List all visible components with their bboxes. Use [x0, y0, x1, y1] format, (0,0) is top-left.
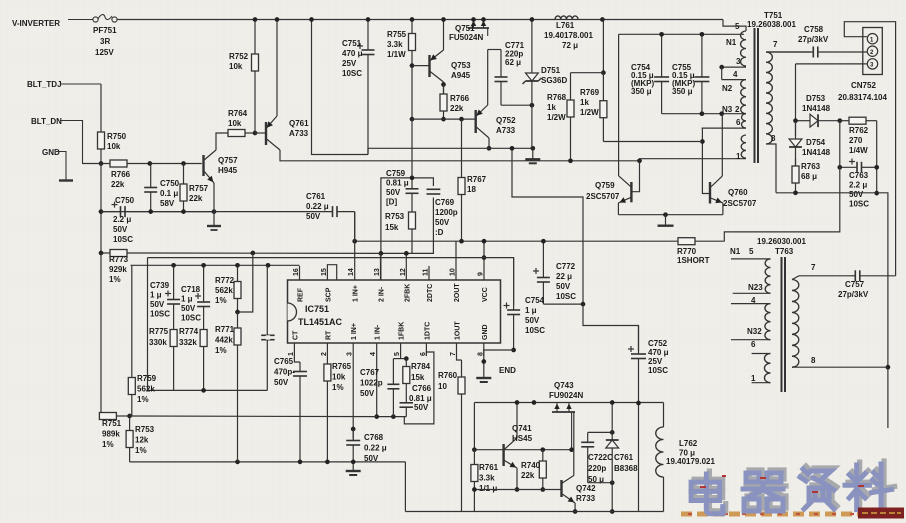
resistor R775 [170, 330, 177, 391]
label Q752 [496, 116, 516, 135]
svg-text:10SC: 10SC [181, 314, 201, 323]
wire rail y192.8 [776, 192, 877, 194]
svg-text:50V: 50V [849, 190, 864, 199]
label Q759 [595, 181, 615, 190]
wire R750 to R773 vertical [100, 164, 102, 254]
svg-text:R763: R763 [801, 162, 821, 171]
junction [530, 17, 535, 22]
svg-text:R752: R752 [229, 52, 249, 61]
wire Q759 emitter drop [617, 203, 619, 215]
wire pin13 riser [380, 253, 382, 266]
svg-text:1: 1 [736, 152, 741, 161]
svg-text:GND: GND [482, 324, 489, 340]
resistor R753 (12k) [126, 416, 133, 462]
label C761 [306, 192, 329, 221]
junction [181, 161, 186, 166]
svg-text:N3: N3 [722, 105, 733, 114]
label Q753 [451, 61, 471, 80]
IC751 bottom pin 1 (CT) [288, 330, 300, 356]
resistor R753 (15k) [409, 208, 416, 253]
transformer T751 core [755, 28, 759, 163]
junction [266, 263, 271, 268]
capacitor C772 (22u) [533, 241, 550, 304]
svg-text:R784: R784 [411, 362, 431, 371]
net BLT_DN label [31, 117, 62, 126]
label T751 [764, 11, 783, 20]
svg-text:1%: 1% [102, 440, 114, 449]
svg-text:1022p: 1022p [360, 379, 383, 388]
IC751 top pin 10 (2OUT) [450, 266, 462, 302]
svg-text:N32: N32 [747, 327, 762, 336]
junction [530, 103, 535, 108]
svg-text:TL1451AC: TL1451AC [298, 317, 343, 327]
wire Q753 emitter to rail [443, 20, 445, 51]
svg-text:C768: C768 [364, 433, 384, 442]
wire VCC jog to C754b [484, 258, 514, 305]
wire T751 tap1 to Q759 base node [640, 159, 747, 161]
transistor Q751 (FU5024N MOSFET) [468, 20, 489, 37]
svg-text:11: 11 [423, 268, 430, 276]
label R753 15k [385, 212, 405, 232]
svg-text:1SHORT: 1SHORT [677, 256, 710, 265]
IC751 top pin 13 (2 IN-) [374, 266, 386, 302]
svg-text:R765: R765 [332, 362, 352, 371]
svg-text:Q741: Q741 [512, 424, 532, 433]
svg-text:12: 12 [400, 268, 407, 276]
svg-text:GND: GND [42, 148, 60, 157]
wire Q741 base rail [474, 449, 571, 451]
watermark underline (dashed) [681, 512, 903, 517]
label R765 [332, 362, 352, 392]
junction [235, 460, 240, 465]
wire pin9 VCC riser [483, 241, 485, 266]
junction [569, 447, 574, 452]
svg-text:22k: 22k [521, 471, 535, 480]
wire Q743 drain rail [474, 402, 663, 404]
capacitor C763 (2.2u) [840, 159, 877, 173]
wire CN752 pin3 to D753 node [796, 63, 867, 65]
svg-text:1DTC: 1DTC [424, 322, 431, 340]
junction [601, 70, 606, 75]
svg-text:R771: R771 [215, 325, 235, 334]
svg-text:C761: C761 [306, 192, 326, 201]
svg-text:0.22 μ: 0.22 μ [364, 444, 387, 453]
svg-text::D: :D [435, 228, 444, 237]
junction [837, 118, 842, 123]
label C767 [360, 368, 383, 398]
label L761 [556, 21, 575, 30]
wire R773 line to pin13 node [148, 252, 381, 254]
svg-text:R750: R750 [107, 132, 127, 141]
transistor Q757 [204, 150, 217, 183]
svg-text:3.3k: 3.3k [387, 40, 403, 49]
svg-text:Q752: Q752 [496, 116, 516, 125]
transistor Q752 [476, 105, 489, 138]
svg-text:1: 1 [751, 374, 756, 383]
svg-text:10k: 10k [332, 373, 346, 382]
wire C754/C755 bottom rail (tap2) [662, 113, 746, 115]
junction [352, 239, 357, 244]
svg-text:1/2W: 1/2W [547, 113, 566, 122]
svg-text:50V: 50V [525, 316, 540, 325]
svg-text:Q742: Q742 [576, 484, 596, 493]
svg-text:50V: 50V [113, 225, 128, 234]
svg-text:19.26038.001: 19.26038.001 [747, 20, 796, 29]
T763 N1 [765, 259, 770, 293]
svg-text:10SC: 10SC [849, 200, 869, 209]
label Q741 [512, 424, 533, 443]
label pin8 T751 [771, 134, 776, 143]
label R766 [111, 170, 131, 189]
junction [472, 447, 477, 452]
IC751 top pin 16 (REF) [293, 266, 305, 302]
svg-text:1%: 1% [215, 346, 227, 355]
junction [482, 239, 487, 244]
junction [212, 209, 217, 214]
junction [410, 117, 415, 122]
wire T751 sec top to C758 [766, 51, 811, 53]
wire Q742 collector riser [573, 412, 575, 476]
svg-text:L762: L762 [679, 439, 698, 448]
svg-text:VCC: VCC [482, 287, 489, 302]
wire Q757 emitter to ground [213, 183, 215, 226]
junction [610, 480, 615, 485]
wire pin7 jog [457, 356, 462, 360]
svg-text:10SC: 10SC [150, 310, 170, 319]
wire vertical x311 [312, 20, 369, 155]
junction [540, 487, 545, 492]
junction [637, 158, 642, 163]
svg-text:25V: 25V [342, 59, 357, 68]
svg-text:3: 3 [736, 57, 741, 66]
svg-text:18: 18 [467, 185, 476, 194]
wire y148 rail with ground [368, 147, 533, 149]
svg-text:FU5024N: FU5024N [449, 33, 483, 42]
svg-text:50V: 50V [150, 300, 165, 309]
IC751 bottom pin 5 (1FBK) [394, 322, 406, 356]
junction [700, 139, 705, 144]
junction [515, 400, 520, 405]
IC751 bottom pin 8 (GND) [477, 324, 489, 356]
IC751 bottom pin 2 (RT) [321, 330, 333, 356]
junction [874, 165, 879, 170]
label C771 [505, 41, 525, 67]
resistor R760 [458, 360, 465, 512]
wire Q760 collector riser [721, 114, 723, 176]
svg-text:H945: H945 [218, 166, 238, 175]
junction [511, 348, 516, 353]
capacitor C761 (0.22u) [214, 206, 355, 217]
wire T763 fb bottom stub [752, 382, 771, 384]
svg-text:1%: 1% [109, 275, 121, 284]
svg-text:HS45: HS45 [512, 434, 533, 443]
svg-text:470p-: 470p- [274, 368, 295, 377]
svg-text:19.40179.021: 19.40179.021 [666, 457, 715, 466]
fuse PF751 value labels [93, 26, 117, 35]
svg-text:R757: R757 [189, 184, 209, 193]
label C739 [150, 281, 170, 319]
label R764 [228, 109, 248, 128]
T751 N2 coil [741, 80, 746, 114]
svg-text:0.81 μ: 0.81 μ [409, 394, 432, 403]
ground at IC pin8 [476, 372, 491, 382]
watermark red accents [700, 476, 864, 492]
svg-text:10k: 10k [229, 62, 243, 71]
wire Q761 base [255, 132, 266, 134]
IC751 bottom pin 3 (1 IN+) [347, 323, 359, 356]
label Q760 [728, 188, 748, 197]
junction [510, 146, 515, 151]
wire bottom rail y462 [130, 461, 406, 463]
svg-text:15k: 15k [385, 223, 399, 232]
svg-text:1%: 1% [135, 446, 147, 455]
svg-text:R751: R751 [102, 419, 122, 428]
svg-text:R769: R769 [580, 88, 600, 97]
wire rail jog down to T763 pin8 [877, 193, 888, 428]
wire Q757 collector [216, 133, 228, 150]
resistor R764 [228, 130, 255, 137]
label R766 22k [450, 94, 470, 113]
label C752 [648, 339, 669, 375]
label R760 [438, 371, 458, 391]
svg-text:A945: A945 [451, 71, 471, 80]
label pin7 T751 [773, 40, 778, 49]
label Q743 [554, 381, 574, 390]
svg-text:6: 6 [736, 118, 741, 127]
svg-text:470 μ: 470 μ [342, 49, 363, 58]
svg-text:1/2W: 1/2W [580, 108, 599, 117]
IC751 top pin 11 (2DTC) [423, 266, 435, 302]
svg-text:2DTC: 2DTC [427, 284, 434, 302]
svg-text:50V: 50V [181, 304, 196, 313]
svg-text:1k: 1k [580, 98, 589, 107]
svg-text:Q743: Q743 [554, 381, 574, 390]
svg-text:FU9024N: FU9024N [549, 391, 583, 400]
svg-text:10SC: 10SC [556, 292, 576, 301]
watermark badge [858, 508, 904, 519]
svg-text:270: 270 [849, 136, 863, 145]
svg-text:10SC: 10SC [342, 69, 362, 78]
svg-text:10k: 10k [228, 119, 242, 128]
svg-text:7: 7 [773, 40, 778, 49]
T763 sec [792, 280, 799, 368]
wire T751 tap4 [722, 79, 746, 81]
svg-text:2: 2 [321, 352, 328, 356]
wire pin14 riser to C761 node [354, 212, 356, 266]
wire left chain to bottom rail [473, 490, 475, 512]
label C750 2.2u [115, 196, 135, 205]
label R771 [215, 325, 235, 355]
wire mid rail y211 [101, 211, 214, 213]
resistor R774 [200, 330, 207, 391]
svg-text:50V: 50V [386, 188, 401, 197]
resistor R766 [83, 160, 150, 167]
wire C752 node down to bottom rail [638, 403, 640, 512]
svg-text:9: 9 [478, 272, 485, 276]
junction [99, 209, 104, 214]
label pin7 T763 [811, 263, 816, 272]
svg-text:D753: D753 [806, 94, 826, 103]
svg-text:1N4148: 1N4148 [802, 148, 831, 157]
svg-text:22k: 22k [189, 194, 203, 203]
wire R750 vertical to R751 [99, 253, 101, 416]
junction [515, 487, 520, 492]
label R775 [149, 327, 169, 347]
svg-text:L761: L761 [556, 21, 575, 30]
svg-text:22k: 22k [111, 180, 125, 189]
resistor R769 [600, 73, 607, 142]
label CN752 [851, 81, 876, 90]
wire R769 to Q760 base node [603, 141, 702, 143]
svg-text:1 μ: 1 μ [150, 291, 162, 300]
svg-text:CT: CT [292, 330, 299, 340]
svg-text:10SC: 10SC [113, 235, 133, 244]
wire Q759 collector riser [618, 34, 620, 176]
wire long rail y241 [355, 240, 583, 242]
wire staircase x583 to C752 [583, 304, 639, 351]
junction [636, 401, 641, 406]
junction [530, 146, 535, 151]
junction [275, 17, 280, 22]
wire base node down to C759 box [411, 119, 413, 178]
svg-text:R775: R775 [149, 327, 169, 336]
svg-text:1N4148: 1N4148 [802, 104, 831, 113]
label D754 [806, 138, 826, 147]
svg-text:989k: 989k [102, 430, 120, 439]
label N32 [747, 327, 762, 336]
label R757 [189, 184, 209, 203]
junction [481, 17, 486, 22]
svg-text:1%: 1% [332, 383, 344, 392]
capacitor C752 (470u) [628, 326, 646, 404]
transistor Q759 [618, 176, 631, 203]
watermark char 1 (dian) [691, 471, 726, 514]
wire Q761 collector to rail [276, 20, 278, 117]
svg-text:10k: 10k [107, 142, 121, 151]
svg-text:SCP: SCP [325, 287, 332, 302]
junction [410, 176, 415, 181]
capacitor C722C (220p) [581, 432, 594, 482]
junction [719, 111, 724, 116]
svg-text:8: 8 [771, 134, 776, 143]
svg-text:PF751: PF751 [93, 26, 117, 35]
wire Q753 collector to R766b [443, 82, 445, 94]
wire Q741 emitter drop [516, 468, 518, 490]
label C718 [181, 285, 201, 323]
svg-text:C772: C772 [556, 262, 576, 271]
wire base node to Q752 base [412, 118, 476, 120]
svg-text:1%: 1% [137, 395, 149, 404]
svg-text:R761: R761 [479, 463, 499, 472]
ground at Q752 emitter rail [525, 148, 540, 163]
wire pin3 down to C768 [352, 356, 354, 439]
label R763 [801, 162, 821, 181]
label L762 [679, 439, 698, 458]
wire Q752 collector down [488, 138, 490, 148]
svg-text:929k: 929k [109, 265, 127, 274]
wire BLT_TDJ [60, 83, 101, 85]
svg-text:END: END [499, 366, 516, 375]
junction [147, 161, 152, 166]
transistor Q760 [710, 176, 723, 203]
svg-text:C765: C765 [274, 357, 294, 366]
wire C759 box [381, 178, 434, 280]
label R750 [107, 132, 127, 151]
svg-text:4: 4 [733, 70, 738, 79]
watermark char 4 (liao) [845, 461, 895, 511]
svg-text:27p/3kV: 27p/3kV [838, 290, 869, 299]
transistor Q742 [562, 476, 576, 504]
label R740 [521, 461, 541, 480]
label END [499, 366, 516, 375]
svg-text:BLT_DN: BLT_DN [31, 117, 62, 126]
label D753 [806, 94, 826, 103]
junction [541, 239, 546, 244]
junction [459, 239, 464, 244]
capacitor C750 (2.2u electrolytic) [101, 202, 214, 218]
wire T763 sec top to C757 [792, 276, 851, 280]
wire L762 bottom [663, 477, 665, 512]
junction [351, 460, 356, 465]
T751 N1 coil [741, 31, 746, 66]
wire Q753 base [412, 65, 430, 67]
junction [793, 190, 798, 195]
wire rectifier vertical [795, 64, 797, 136]
svg-text:2 IN-: 2 IN- [379, 286, 386, 302]
junction [700, 111, 705, 116]
wire C763 left vertical to R770 path [724, 121, 840, 242]
svg-text:C752: C752 [648, 339, 668, 348]
svg-text:C763: C763 [849, 171, 869, 180]
wire T751 tap3-tap4 link [721, 67, 723, 80]
svg-text:C767: C767 [360, 368, 380, 377]
T751 fb coil [741, 135, 746, 158]
junction [201, 388, 206, 393]
wire C751 bottom jog [367, 148, 369, 154]
svg-text:19.26030.001: 19.26030.001 [757, 237, 806, 246]
svg-text:562k: 562k [215, 286, 233, 295]
label C754 1u [525, 296, 545, 335]
junction [309, 17, 314, 22]
wire pin10 riser [455, 241, 457, 266]
wire BLT_DN [60, 121, 112, 164]
junction [874, 191, 879, 196]
label N23 [748, 283, 763, 292]
svg-text:3.3k: 3.3k [479, 474, 495, 483]
capacitor C758 (27p/3kV) [766, 47, 867, 58]
svg-text:Q751: Q751 [455, 24, 475, 33]
capacitor C750 (0.1u) [144, 164, 157, 212]
junction [127, 414, 132, 419]
watermark char 3 (zi) [800, 466, 837, 509]
capacitor C766 (0.81u) [400, 400, 414, 417]
wire feedback line y416 [130, 415, 377, 418]
label Q742 [576, 484, 596, 503]
wire pin15 SCP loop [327, 265, 336, 280]
svg-text:IC751: IC751 [305, 304, 329, 314]
svg-text:14: 14 [348, 268, 355, 276]
capacitor C759 (0.81u) [406, 178, 419, 208]
resistor R773 [101, 250, 148, 257]
label D761 [614, 453, 638, 473]
resistor R751 [99, 413, 129, 420]
svg-text:N1: N1 [730, 247, 741, 256]
svg-text:19.40178.001: 19.40178.001 [544, 31, 593, 40]
label pin8 T763 [811, 356, 816, 365]
svg-text:R764: R764 [228, 109, 248, 118]
wire pin12 riser [405, 253, 407, 266]
svg-text:R766: R766 [111, 170, 131, 179]
